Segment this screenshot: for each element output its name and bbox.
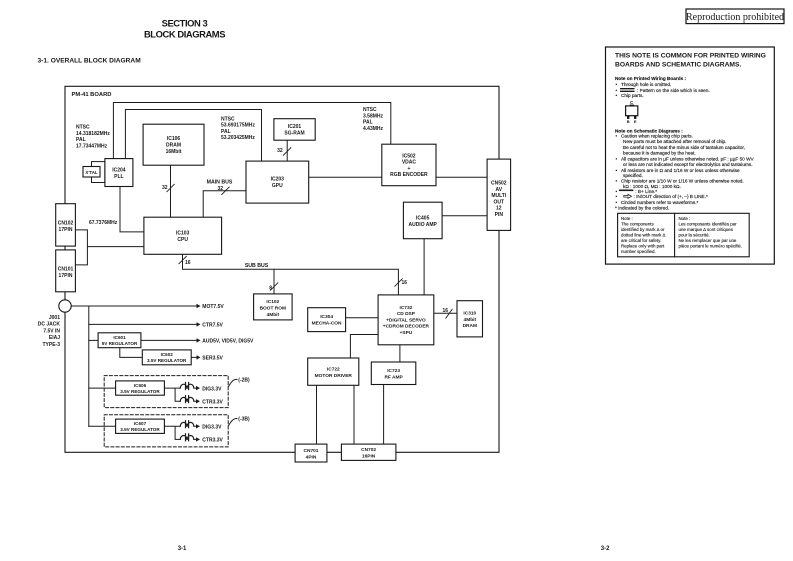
svg-text:MULTI: MULTI bbox=[491, 193, 507, 199]
page number 3-1 bbox=[178, 546, 187, 552]
svg-text:Caution when replacing chip pa: Caution when replacing chip parts. bbox=[621, 133, 693, 138]
svg-text:The components: The components bbox=[621, 222, 655, 227]
svg-text:8: 8 bbox=[269, 285, 272, 291]
svg-text:IC601: IC601 bbox=[113, 335, 126, 340]
SG-RAM IC201 bbox=[274, 119, 315, 141]
svg-text:PM-41 BOARD: PM-41 BOARD bbox=[72, 92, 112, 98]
svg-text:53.693175MHz: 53.693175MHz bbox=[221, 123, 255, 129]
wire CN102 to CPU bracket bbox=[75, 230, 143, 265]
svg-text:(-3B): (-3B) bbox=[238, 416, 250, 422]
label NTSC 3.58MHz PAL 4.43MHz bbox=[363, 107, 384, 132]
bus name labels bbox=[89, 180, 269, 269]
CD DSP IC732 bbox=[378, 295, 434, 345]
section title bbox=[144, 18, 225, 40]
svg-text:+SPU: +SPU bbox=[400, 330, 413, 336]
arrow CTR3.3V (-2) bbox=[196, 399, 200, 403]
connector CN701 bbox=[295, 444, 327, 462]
wire IC204 PLL 67.7376MHz to CPU bbox=[120, 187, 144, 232]
svg-text:Reproduction prohibited: Reproduction prohibited bbox=[686, 12, 784, 23]
svg-text:IC103: IC103 bbox=[176, 230, 190, 236]
svg-text:MOTOR DRIVER: MOTOR DRIVER bbox=[315, 373, 353, 379]
audio amp IC405 bbox=[403, 202, 442, 239]
svg-text:PAL: PAL bbox=[363, 120, 373, 126]
svg-text:32: 32 bbox=[217, 186, 223, 192]
inductor L (-2) DIG3.3V bbox=[180, 383, 194, 390]
svg-text:17PIN: 17PIN bbox=[59, 227, 73, 233]
svg-text:4Mbit: 4Mbit bbox=[267, 312, 280, 318]
svg-text:DRAM: DRAM bbox=[166, 143, 181, 149]
svg-text:IC602: IC602 bbox=[161, 352, 174, 357]
svg-text:CN701: CN701 bbox=[304, 448, 319, 454]
svg-text:CN702: CN702 bbox=[361, 447, 376, 453]
svg-text:or less are not indicated exce: or less are not indicated except for ele… bbox=[623, 162, 753, 167]
svg-text:+: + bbox=[407, 166, 410, 172]
svg-text:CTR3.3V: CTR3.3V bbox=[202, 400, 223, 406]
inductor L (-3) CTR3.3V bbox=[180, 434, 194, 441]
wire IC607 outputs bbox=[164, 426, 197, 439]
svg-text:IC606: IC606 bbox=[134, 383, 147, 388]
svg-text:7.5V IN: 7.5V IN bbox=[43, 328, 60, 334]
svg-text:All capacitors are in µF unles: All capacitors are in µF unless otherwis… bbox=[621, 156, 755, 161]
svg-text:because it is damaged by the h: because it is damaged by the heat. bbox=[623, 150, 696, 155]
svg-text:16PIN: 16PIN bbox=[362, 454, 376, 460]
svg-text:PAL: PAL bbox=[221, 129, 231, 135]
label DIG3.3V (-3) bbox=[202, 425, 222, 431]
wire CTR7.5V rail bbox=[89, 323, 197, 325]
svg-text:number specified.: number specified. bbox=[621, 249, 656, 254]
svg-text:IC723: IC723 bbox=[387, 368, 400, 374]
wire into IC606 bbox=[89, 387, 116, 389]
svg-text:+DIGITAL SERVO: +DIGITAL SERVO bbox=[386, 317, 426, 323]
svg-text:VDAC: VDAC bbox=[402, 160, 417, 166]
svg-text:DC JACK: DC JACK bbox=[38, 322, 61, 328]
svg-text:67.7376MHz: 67.7376MHz bbox=[89, 220, 118, 226]
svg-text:EIAJ: EIAJ bbox=[49, 335, 60, 341]
svg-text:B: B bbox=[627, 119, 630, 124]
svg-text:J001: J001 bbox=[49, 315, 60, 321]
svg-text:CTR3.3V: CTR3.3V bbox=[202, 438, 223, 444]
arrow DIG3.3V (-2) bbox=[196, 386, 200, 390]
arrow MOT7.5V bbox=[197, 304, 201, 308]
common note box bbox=[606, 47, 775, 264]
svg-text:All resistors are in Ω and 1/1: All resistors are in Ω and 1/16 W or les… bbox=[621, 168, 740, 173]
bus slash 16 CPU-SUB BUS bbox=[179, 256, 191, 266]
arrow AUD5V bbox=[197, 338, 201, 342]
svg-text:specified.: specified. bbox=[623, 173, 643, 178]
wire X'TAL leads to IC204 bbox=[92, 162, 105, 183]
wire power feed vertical bbox=[88, 306, 90, 426]
arrow CTR7.5V bbox=[197, 322, 201, 326]
svg-text:CTR7.5V: CTR7.5V bbox=[202, 323, 223, 329]
label MAIN BUS bbox=[207, 180, 233, 186]
bus slash 16 SUB BUS-IC732 bbox=[395, 279, 407, 287]
wire IC601 to IC602 bbox=[120, 348, 143, 358]
svg-text:IC502: IC502 bbox=[402, 153, 416, 159]
svg-text:DIG3.3V: DIG3.3V bbox=[202, 386, 222, 392]
regulator IC607 bbox=[116, 419, 165, 433]
svg-text:PAL: PAL bbox=[76, 137, 86, 143]
svg-text:E: E bbox=[634, 119, 637, 124]
RF amp IC723 bbox=[371, 362, 416, 385]
svg-text:32: 32 bbox=[277, 148, 283, 154]
arrow SER3.5V bbox=[197, 355, 201, 359]
svg-text:14.318182MHz: 14.318182MHz bbox=[76, 131, 110, 137]
svg-text:THIS NOTE IS COMMON FOR PRINTE: THIS NOTE IS COMMON FOR PRINTED WIRING bbox=[615, 53, 766, 60]
svg-text:AV: AV bbox=[496, 187, 503, 193]
inductor L (-2) CTR3.3V bbox=[180, 396, 194, 403]
svg-text:3.58MHz: 3.58MHz bbox=[363, 113, 384, 119]
wire IC732 to IC723 bbox=[399, 345, 401, 362]
svg-text:+CDROM DECODER: +CDROM DECODER bbox=[383, 324, 430, 330]
label NTSC 14.318182MHz PAL 17.73447MHz bbox=[76, 125, 110, 150]
wire IC304 to IC732 bbox=[346, 317, 379, 319]
svg-text:16: 16 bbox=[442, 308, 448, 314]
svg-text:4PIN: 4PIN bbox=[306, 454, 317, 460]
regulator IC606 bbox=[116, 381, 165, 395]
svg-text:Les composants identifiés par: Les composants identifiés par bbox=[679, 222, 738, 227]
svg-text:IC607: IC607 bbox=[134, 421, 147, 426]
svg-text:TYPE-3: TYPE-3 bbox=[42, 342, 60, 348]
wire IC405 to CN502 bbox=[442, 215, 487, 217]
svg-text:16: 16 bbox=[402, 280, 408, 286]
connector CN101 bbox=[56, 250, 76, 292]
svg-text:pour la sécurité.: pour la sécurité. bbox=[679, 233, 710, 238]
RGB encoder IC502 bbox=[382, 144, 436, 186]
option leader (-2) bbox=[229, 377, 251, 386]
DRAM IC106 bbox=[143, 124, 204, 165]
svg-text:are critical for safety.: are critical for safety. bbox=[621, 238, 661, 243]
svg-text:5V REGULATOR: 5V REGULATOR bbox=[102, 341, 138, 346]
label MOT7.5V bbox=[202, 304, 224, 310]
svg-text:IC732: IC732 bbox=[399, 305, 412, 311]
svg-text:16: 16 bbox=[185, 260, 191, 266]
dashed option boxes bbox=[104, 376, 228, 447]
svg-text:Note :: Note : bbox=[679, 216, 691, 221]
svg-text:DIG3.3V: DIG3.3V bbox=[202, 425, 222, 431]
svg-text:CN102: CN102 bbox=[58, 221, 74, 227]
svg-text:32: 32 bbox=[162, 185, 168, 191]
inductor L (-3) DIG3.3V bbox=[180, 421, 194, 428]
label AUD5V VID5V DIG5V bbox=[202, 339, 254, 345]
svg-text:Note :: Note : bbox=[621, 216, 633, 221]
svg-text:Replace only with part: Replace only with part bbox=[621, 244, 665, 249]
svg-text:IC106: IC106 bbox=[167, 136, 181, 142]
bus slash 32 IC201-GPU bbox=[277, 148, 291, 156]
wire SUB BUS drop to IC102 BOOT ROM bbox=[273, 269, 275, 294]
safety note sub-boxes bbox=[618, 213, 750, 256]
DC jack J001 bbox=[38, 300, 71, 348]
power distribution section bbox=[71, 306, 197, 439]
wire AUD5V rail bbox=[141, 339, 197, 341]
svg-text:CN101: CN101 bbox=[58, 267, 74, 273]
svg-text:Chip resistor are 1/10 W or 1/: Chip resistor are 1/10 W or 1/16 W unles… bbox=[621, 179, 744, 184]
wire PLL clock to GPU bbox=[125, 110, 261, 162]
svg-text:3-2: 3-2 bbox=[601, 546, 610, 552]
wire SER3.5V rail bbox=[191, 356, 196, 358]
svg-text:(-2B): (-2B) bbox=[238, 377, 250, 383]
svg-text:: Pattern on the side which i: : Pattern on the side which is seen. bbox=[637, 88, 710, 93]
wire into IC601 bbox=[89, 339, 98, 341]
bus slash 32 MAIN BUS bbox=[217, 186, 229, 194]
svg-text:Through hole is omitted.: Through hole is omitted. bbox=[621, 82, 671, 87]
svg-text:CD DSP: CD DSP bbox=[397, 311, 416, 317]
bus slash 16 IC732-IC310 bbox=[442, 308, 452, 318]
label SUB BUS bbox=[245, 263, 269, 269]
svg-text:OUT: OUT bbox=[494, 199, 505, 205]
bus slash 8 SUB BUS-IC102 bbox=[269, 283, 278, 292]
wire IC732 to IC722 bbox=[350, 335, 378, 359]
svg-text:16Mbit: 16Mbit bbox=[166, 149, 182, 155]
clock frequency notes bbox=[76, 107, 384, 149]
CPU IC103 bbox=[144, 217, 222, 254]
svg-text:SG-RAM: SG-RAM bbox=[284, 131, 304, 137]
wire IC723 to CN702 bbox=[383, 385, 385, 445]
svg-text:53.203425MHz: 53.203425MHz bbox=[221, 135, 255, 141]
svg-text:BLOCK DIAGRAMS: BLOCK DIAGRAMS bbox=[144, 29, 225, 40]
svg-text:identified by mark Δ or: identified by mark Δ or bbox=[621, 227, 665, 232]
svg-text:PLL: PLL bbox=[114, 174, 123, 180]
svg-text:AUD5V, VID5V, DIG5V: AUD5V, VID5V, DIG5V bbox=[202, 339, 254, 345]
crystal X'TAL bbox=[83, 167, 100, 178]
svg-text:AUDIO AMP: AUDIO AMP bbox=[408, 222, 437, 228]
label SER3.5V bbox=[202, 356, 223, 362]
svg-text:IC201: IC201 bbox=[288, 124, 302, 130]
svg-text:IC102: IC102 bbox=[266, 299, 279, 305]
svg-text:MAIN BUS: MAIN BUS bbox=[207, 180, 233, 186]
svg-text:CPU: CPU bbox=[177, 237, 188, 243]
in/out arrow symbol bbox=[624, 194, 632, 198]
wire IC722 to CN702 bbox=[353, 385, 355, 444]
svg-text:DRAM: DRAM bbox=[463, 323, 477, 329]
svg-text:IC310: IC310 bbox=[463, 311, 476, 317]
svg-text:17.73447MHz: 17.73447MHz bbox=[76, 144, 108, 150]
svg-text:: B+ Line.*: : B+ Line.* bbox=[635, 189, 657, 194]
svg-text:3-1. OVERALL BLOCK DIAGRAM: 3-1. OVERALL BLOCK DIAGRAM bbox=[38, 58, 142, 65]
label CTR3.3V (-2) bbox=[202, 400, 223, 406]
pattern symbol bbox=[620, 88, 635, 92]
svg-text:: IN/OUT direction of (+, –) B: : IN/OUT direction of (+, –) B LINE.* bbox=[634, 194, 708, 199]
svg-text:IC405: IC405 bbox=[416, 215, 430, 221]
bus width marks bbox=[162, 148, 452, 319]
label CTR3.3V (-3) bbox=[202, 438, 223, 444]
diagram caption 3-1 bbox=[38, 58, 142, 65]
inductors bbox=[180, 383, 194, 441]
wire IC106 DRAM to CPU bbox=[170, 165, 172, 217]
svg-text:3.5V REGULATOR: 3.5V REGULATOR bbox=[120, 389, 160, 394]
wire MAIN BUS CPU to GPU bbox=[203, 191, 246, 217]
svg-text:New parts must be attached aft: New parts must be attached after removal… bbox=[623, 139, 726, 144]
svg-text:GPU: GPU bbox=[272, 183, 283, 189]
dashed box (-2) bbox=[104, 376, 228, 408]
label 67.7376MHz bbox=[89, 220, 118, 226]
wire PLL clock to IC502 (NTSC 3.58MHz) bbox=[113, 103, 390, 159]
connector CN702 bbox=[341, 444, 396, 460]
svg-text:RF AMP: RF AMP bbox=[384, 375, 403, 381]
svg-text:Note on Printed Wiring Boards: Note on Printed Wiring Boards : bbox=[615, 76, 686, 81]
boot rom IC102 bbox=[254, 294, 293, 320]
svg-text:* Indicated by the colored.: * Indicated by the colored. bbox=[615, 206, 669, 211]
svg-text:MOT7.5V: MOT7.5V bbox=[202, 304, 224, 310]
svg-text:4.43MHz: 4.43MHz bbox=[363, 126, 384, 132]
svg-text:3-1: 3-1 bbox=[178, 546, 187, 552]
connector CN502 AV MULTI OUT bbox=[487, 159, 511, 230]
svg-text:MECHA-CON: MECHA-CON bbox=[312, 320, 342, 326]
svg-text:dotted line with mark Δ: dotted line with mark Δ bbox=[621, 233, 665, 238]
DRAM IC310 bbox=[457, 301, 483, 337]
mecha controller IC304 bbox=[308, 308, 346, 332]
svg-text:3.5V REGULATOR: 3.5V REGULATOR bbox=[120, 427, 160, 432]
chip part drawing bbox=[626, 100, 638, 124]
motor driver IC722 bbox=[308, 358, 359, 385]
svg-text:12: 12 bbox=[496, 206, 502, 212]
regulator boxes bbox=[98, 333, 191, 434]
arrowheads on rails bbox=[196, 304, 201, 442]
B+ line symbol bbox=[619, 190, 633, 192]
dashed box (-3) bbox=[104, 415, 228, 447]
regulator IC601 bbox=[98, 333, 141, 348]
svg-text:3.5V REGULATOR: 3.5V REGULATOR bbox=[147, 358, 187, 363]
arrow DIG3.3V (-3) bbox=[196, 424, 200, 428]
svg-text:BOARDS AND SCHEMATIC DIAGRAMS.: BOARDS AND SCHEMATIC DIAGRAMS. bbox=[615, 62, 741, 69]
svg-text:CN502: CN502 bbox=[491, 181, 507, 187]
page number 3-2 bbox=[601, 546, 610, 552]
svg-text:Circled numbers refer to wavef: Circled numbers refer to waveforms.* bbox=[621, 200, 699, 205]
svg-text:SUB BUS: SUB BUS bbox=[245, 263, 269, 269]
svg-text:BOOT ROM: BOOT ROM bbox=[260, 306, 286, 312]
PLL IC204 bbox=[105, 159, 133, 187]
svg-text:PIN: PIN bbox=[495, 212, 504, 218]
reproduction prohibited stamp bbox=[686, 9, 784, 24]
label DIG3.3V (-2) bbox=[202, 386, 222, 392]
svg-text:pièce portant le numéro spécif: pièce portant le numéro spécifié. bbox=[679, 244, 742, 249]
wire IC732 to IC310 bbox=[434, 312, 457, 314]
wire IC405 to IC732 bbox=[423, 239, 425, 295]
svg-text:4Mbit: 4Mbit bbox=[464, 317, 477, 323]
GPU IC203 bbox=[246, 161, 309, 203]
svg-text:NTSC: NTSC bbox=[76, 125, 90, 131]
wire IC201 SG-RAM to GPU bbox=[286, 140, 288, 161]
wire GPU to IC502 bbox=[309, 176, 382, 178]
bus slash 32 IC106-CPU bbox=[162, 184, 174, 192]
wire into IC607 bbox=[89, 425, 116, 427]
wire IC606 outputs bbox=[164, 388, 197, 401]
wire IC722 to CN701 bbox=[316, 385, 318, 444]
wire SUB BUS CPU to IC732 bbox=[183, 254, 399, 295]
svg-text:17PIN: 17PIN bbox=[59, 273, 73, 279]
svg-text:IC203: IC203 bbox=[271, 177, 285, 183]
svg-text:NTSC: NTSC bbox=[221, 116, 235, 122]
label CTR7.5V bbox=[202, 323, 223, 329]
svg-text:IC204: IC204 bbox=[112, 167, 126, 173]
PM-41 board outline bbox=[65, 86, 499, 452]
svg-text:SER3.5V: SER3.5V bbox=[202, 356, 223, 362]
wire IC502 to CN502 bbox=[436, 176, 487, 178]
power net labels bbox=[202, 304, 254, 443]
arrow CTR3.3V (-3) bbox=[196, 437, 200, 441]
svg-text:RGB ENCODER: RGB ENCODER bbox=[390, 172, 428, 178]
svg-text:Be careful not to heat the min: Be careful not to heat the minus side of… bbox=[623, 145, 745, 150]
svg-text:Chip parts.: Chip parts. bbox=[621, 93, 644, 98]
svg-text:X'TAL: X'TAL bbox=[85, 170, 97, 175]
svg-text:Ne les remplacer que par une: Ne les remplacer que par une bbox=[679, 238, 737, 243]
svg-text:IC304: IC304 bbox=[320, 314, 333, 320]
regulator IC602 bbox=[142, 350, 191, 365]
option leader (-3) bbox=[229, 416, 251, 425]
label NTSC 53.693175MHz PAL 53.203425MHz bbox=[221, 116, 255, 141]
svg-text:une marque Δ sont critiques: une marque Δ sont critiques bbox=[679, 227, 734, 232]
svg-text:NTSC: NTSC bbox=[363, 107, 377, 113]
svg-text:SECTION 3: SECTION 3 bbox=[162, 18, 208, 29]
wire MOT7.5V rail bbox=[71, 305, 196, 307]
svg-text:IC722: IC722 bbox=[327, 366, 340, 372]
connector CN102 bbox=[56, 204, 76, 246]
